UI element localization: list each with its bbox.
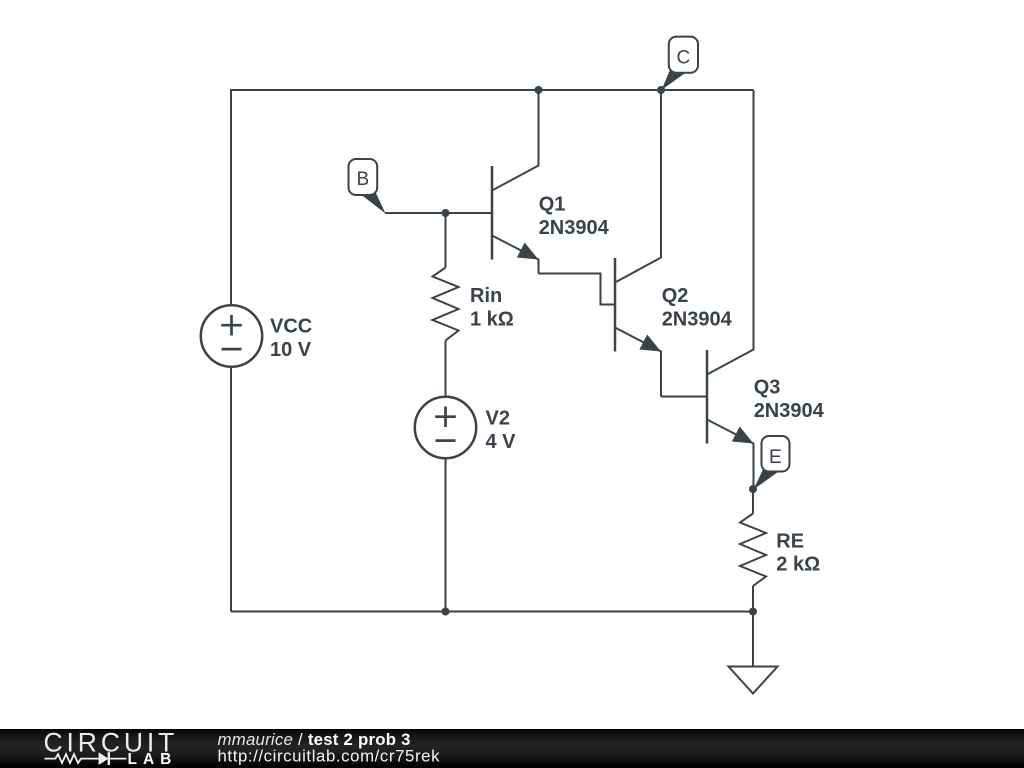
junction dot RE bottom	[749, 608, 757, 616]
node C flag	[662, 37, 699, 90]
svg-text:Q1: Q1	[539, 194, 566, 216]
resistor Rin	[433, 213, 459, 397]
svg-text:C: C	[677, 47, 691, 68]
label Rin 1 kOhm	[470, 285, 514, 330]
svg-text:LAB: LAB	[128, 751, 178, 768]
wire V2 to bottom rail	[445, 459, 447, 612]
transistor Q3	[707, 90, 754, 489]
ground	[729, 612, 778, 694]
wire Q1 emitter to Q2 base	[539, 274, 616, 305]
svg-text:Q2: Q2	[662, 285, 689, 307]
svg-text:B: B	[357, 169, 370, 190]
svg-text:Rin: Rin	[470, 285, 502, 307]
svg-text:V2: V2	[486, 408, 510, 430]
svg-text:E: E	[769, 447, 782, 468]
svg-text:4 V: 4 V	[486, 431, 517, 453]
label Q3 2N3904	[754, 377, 825, 422]
node E flag	[754, 436, 790, 490]
voltage source VCC	[201, 305, 262, 366]
node B flag	[349, 159, 386, 214]
wire node B to Q1 base	[385, 212, 492, 214]
voltage source V2	[415, 397, 476, 458]
label Q2 2N3904	[662, 285, 733, 330]
junction dot node E	[749, 485, 757, 493]
junction dot V2 bottom	[442, 608, 450, 616]
svg-text:VCC: VCC	[270, 316, 312, 338]
svg-text:Q3: Q3	[754, 377, 781, 399]
wire Q2 emitter to Q3 base	[661, 396, 707, 398]
footer bar	[0, 729, 1024, 768]
junction dot Q1 collector	[535, 86, 543, 94]
footer url text	[218, 747, 441, 766]
svg-text:10 V: 10 V	[270, 339, 312, 361]
CircuitLab logo	[44, 728, 179, 768]
svg-text:http://circuitlab.com/cr75rek: http://circuitlab.com/cr75rek	[218, 747, 441, 766]
wire top rail	[231, 89, 754, 91]
wire left rail lower	[230, 367, 232, 612]
transistor Q1	[492, 90, 539, 274]
label VCC 10 V	[270, 316, 312, 361]
label V2 4 V	[486, 408, 517, 453]
wire bottom rail	[231, 611, 753, 613]
resistor RE	[740, 489, 766, 612]
junction dot B/Rin	[442, 209, 450, 217]
svg-text:2 kΩ: 2 kΩ	[776, 554, 820, 576]
wire left rail upper	[230, 89, 232, 306]
label RE 2 kOhm	[776, 530, 820, 575]
svg-text:RE: RE	[776, 530, 804, 552]
svg-text:2N3904: 2N3904	[662, 308, 733, 330]
junction dot node C	[657, 86, 665, 94]
label Q1 2N3904	[539, 194, 610, 239]
svg-text:2N3904: 2N3904	[754, 400, 825, 422]
footer title text	[218, 730, 411, 749]
transistor Q2	[615, 90, 661, 397]
svg-text:2N3904: 2N3904	[539, 217, 610, 239]
svg-text:1 kΩ: 1 kΩ	[470, 308, 514, 330]
